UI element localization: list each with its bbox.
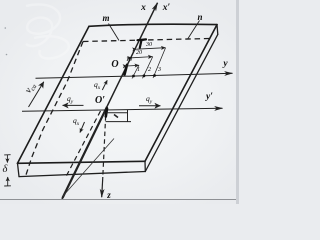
label 10 (126, 57, 132, 63)
dot point1 (132, 75, 135, 78)
extension line point1 (132, 65, 139, 79)
v_ca arrow (29, 82, 44, 107)
top edge (89, 24, 217, 26)
label 30 (146, 42, 152, 48)
right edge (145, 25, 217, 162)
paper top-left white swirl (26, 4, 69, 58)
scan line bottom (0, 199, 239, 200)
bold tick T1 at dashed edge (138, 39, 147, 47)
label q_x upper (94, 80, 100, 91)
label q_x lower (73, 116, 79, 127)
x axis (62, 3, 158, 199)
dot point3 (153, 74, 156, 77)
n leader (188, 21, 200, 40)
x axis thick lower part (63, 107, 108, 198)
label delta thickness (0, 164, 10, 175)
bold tick T2 at O (125, 65, 128, 75)
label point 1 (137, 67, 140, 73)
label y prime axis (202, 92, 217, 102)
front-right vertical edge (144, 161, 146, 171)
q_y right arrow (139, 105, 161, 107)
extension line point3 (153, 48, 166, 78)
front bottom edge (19, 172, 145, 177)
specks (5, 27, 7, 29)
slab thickness edges (18, 25, 218, 177)
y' axis (22, 108, 223, 111)
q_y left arrow (63, 104, 84, 106)
y axis (36, 73, 233, 78)
label 20 (136, 50, 142, 56)
label q_y left (67, 94, 73, 105)
q_x upper arrow (102, 80, 107, 90)
label z axis (103, 190, 115, 200)
scan band right edge (236, 0, 239, 204)
label x axis (137, 3, 150, 13)
left edge (18, 26, 90, 163)
back-right vertical edge (216, 25, 219, 35)
label point 3 (158, 67, 161, 73)
dimension line 30 (137, 48, 166, 50)
label origin O (108, 59, 122, 70)
extension line point2 (143, 57, 153, 79)
label y axis (219, 59, 232, 69)
front top edge (18, 161, 146, 163)
dimension line 20 (132, 57, 153, 58)
label x prime axis (159, 3, 174, 13)
label point 2 (148, 67, 151, 73)
small step detail right of O' (106, 110, 132, 122)
delta dimension ticks and arrows (4, 155, 11, 186)
z dashed line (103, 109, 106, 178)
dashed section top edge m-n (83, 39, 209, 42)
dashed slant line through O' lower-left (66, 111, 101, 178)
plate top face (18, 24, 218, 163)
dimension line 10 (127, 64, 139, 67)
left vertical edge (18, 163, 20, 176)
label origin O prime (92, 95, 108, 106)
z solid arrow (102, 177, 103, 197)
label v_ca velocity (19, 73, 43, 103)
m leader (109, 24, 120, 41)
bold tick T3 below O' (106, 109, 107, 117)
q_x lower arrow (80, 122, 85, 133)
label q_y right (146, 94, 152, 105)
right face bottom edge (145, 34, 218, 171)
label m (99, 13, 113, 23)
label n (193, 12, 207, 22)
dashed section left edge (25, 42, 83, 178)
thin leader line bottom (63, 139, 114, 197)
dot point2 (143, 74, 146, 77)
